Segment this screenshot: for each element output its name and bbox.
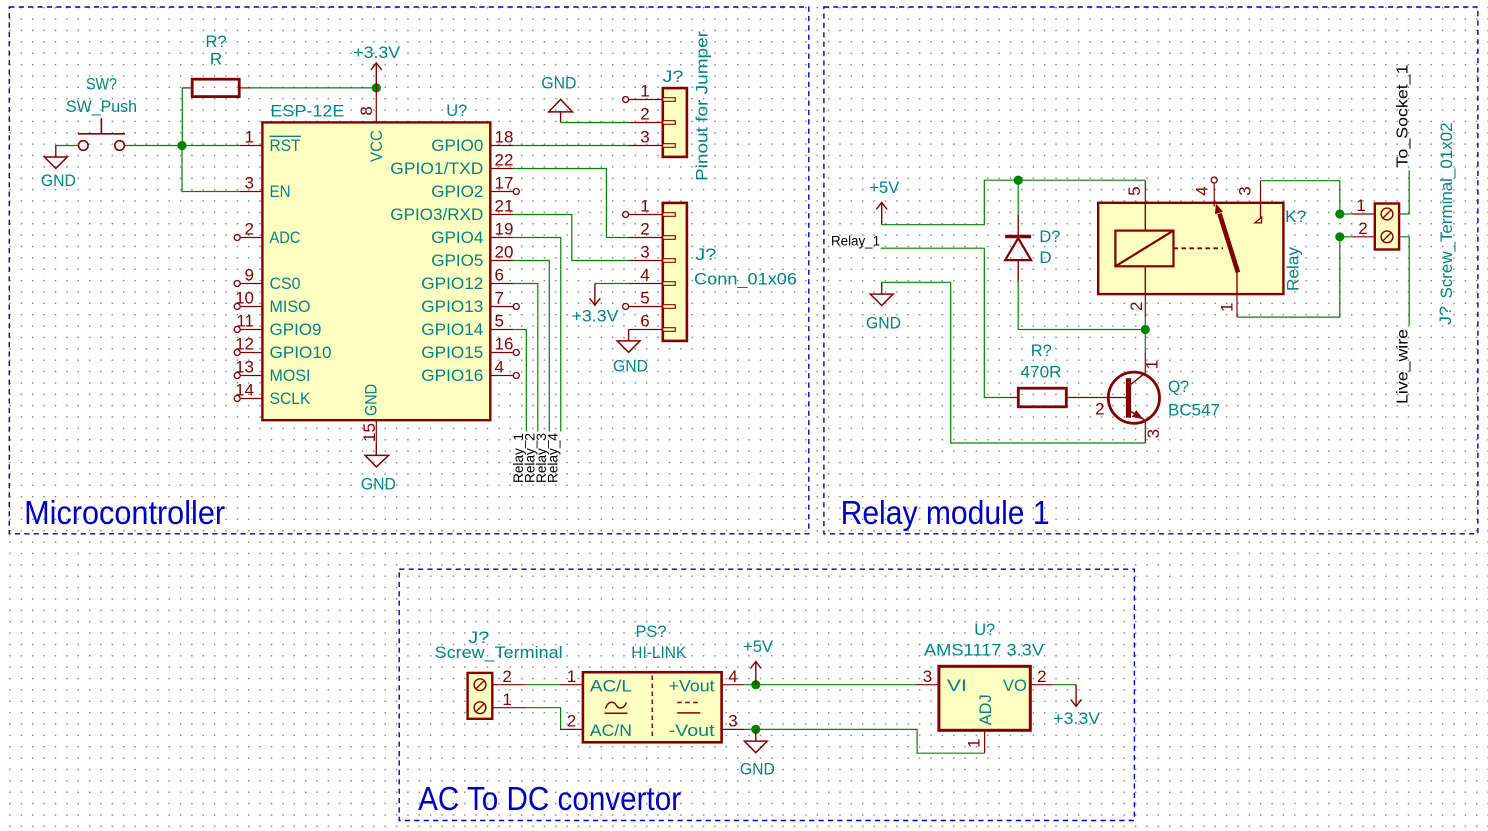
ground symbol GND (U? pin15) [365,444,389,467]
svg-text:1: 1 [567,667,576,686]
pin 5 GPIO14 [421,312,513,339]
pin 6 GPIO12 [421,266,513,293]
svg-text:R?: R? [206,32,227,51]
svg-text:2: 2 [640,220,649,239]
jumper pin 1 [623,82,663,103]
svg-text:GPIO0: GPIO0 [431,136,483,155]
conn pin 1 [623,197,663,218]
svg-text:2: 2 [245,220,254,239]
wire +Vout to AMS VI [744,684,916,686]
ground symbol GND (switch) [44,146,67,169]
pin 13 MOSI [234,358,310,385]
wire +3.3V to conn pin4 [595,283,629,285]
wire GPIO4 to Relay_4 [513,238,561,432]
pin 1 RST [240,128,301,155]
svg-text:3: 3 [640,128,649,147]
wire To_Socket_1 [1399,170,1409,214]
svg-text:J?: J? [695,245,716,264]
pin 10 MISO [234,289,310,316]
svg-text:1: 1 [502,690,511,709]
svg-text:GND: GND [41,171,76,190]
svg-text:6: 6 [640,312,649,331]
wire switch to RST node [124,145,239,147]
ground symbol GND (bottom) [744,729,767,752]
node junction coil/diode/collector [1141,325,1150,334]
relay pin 1 common [1218,273,1238,318]
svg-text:5: 5 [640,289,649,308]
svg-text:VI: VI [947,676,967,695]
ground symbol GND (conn) [617,330,640,353]
wire Live_wire [1399,237,1409,325]
svg-text:EN: EN [270,182,291,201]
pin 3 -Vout [669,712,745,741]
svg-text:VCC: VCC [367,130,386,162]
svg-text:17: 17 [495,174,514,193]
svg-text:13: 13 [235,358,254,377]
wire resistor to +3.3V [250,87,376,89]
wire GPIO14 to Relay_1 [513,330,526,432]
pin 2 ADC [234,220,300,247]
svg-text:3: 3 [728,712,737,731]
terminal pin 2 to AC/L [492,667,560,686]
svg-text:GPIO4: GPIO4 [431,228,483,247]
svg-text:1: 1 [640,82,649,101]
svg-text:D: D [1039,248,1051,267]
terminal pin 1 [1340,196,1375,215]
pin 20 GPIO5 [431,243,513,270]
svg-text:GPIO3/RXD: GPIO3/RXD [390,205,483,224]
pin 22 GPIO1/TXD [390,151,513,178]
svg-text:R?: R? [1031,341,1052,360]
pin 12 GPIO10 [234,335,331,362]
relay pin 2 coil [1127,266,1146,329]
svg-text:10: 10 [235,289,254,308]
relay switch blade [1215,204,1238,273]
svg-text:4: 4 [640,266,649,285]
ground symbol GND (jumper) [549,99,573,122]
section border AC To DC convertor [399,569,1134,820]
svg-text:J?: J? [1436,306,1455,325]
conn pin 3 [629,243,663,262]
svg-text:BC547: BC547 [1168,401,1220,420]
svg-text:GPIO9: GPIO9 [270,320,322,339]
pin 15 GND [360,384,381,444]
svg-text:1: 1 [1356,196,1365,215]
dc icon [677,703,700,713]
svg-text:Conn_01x06: Conn_01x06 [694,270,797,289]
svg-text:Relay module 1: Relay module 1 [841,494,1050,531]
svg-text:MOSI: MOSI [270,366,311,385]
svg-text:+3.3V: +3.3V [572,307,620,326]
svg-text:11: 11 [236,312,254,331]
svg-text:2: 2 [640,105,649,124]
pin 17 GPIO2 [431,174,519,201]
power symbol +3.3V (conn) [590,284,601,306]
svg-text:4: 4 [495,358,504,377]
svg-text:GPIO10: GPIO10 [270,343,332,362]
svg-text:Screw_Terminal: Screw_Terminal [435,643,563,662]
wire GND to emitter [882,282,1146,443]
svg-text:ESP-12E: ESP-12E [270,102,344,121]
connector J? Screw_Terminal body [468,673,493,719]
wire -Vout to ADJ [744,729,984,753]
power symbol +5V (relay) [876,202,887,224]
svg-text:SCLK: SCLK [270,389,312,408]
relay pin 4 [1192,177,1217,207]
node junction GND (bottom) [751,725,760,734]
terminal pin 1 to AC/N [492,690,561,730]
svg-text:PS?: PS? [636,622,667,641]
svg-text:1: 1 [1218,303,1237,312]
conn pin 6 [629,312,663,331]
jumper pin 2 [629,105,663,124]
relay K? body [1098,203,1283,294]
svg-text:2: 2 [567,712,576,731]
svg-text:J?: J? [663,67,684,86]
node junction +5V [751,680,760,689]
svg-text:Relay_1: Relay_1 [831,233,880,249]
svg-text:3: 3 [923,667,932,686]
svg-text:Relay_4: Relay_4 [544,433,560,483]
power module PS? HI-LINK body [583,672,722,742]
svg-text:8: 8 [357,106,376,115]
svg-text:12: 12 [235,335,254,354]
svg-text:GPIO1/TXD: GPIO1/TXD [390,159,483,178]
diode D? D [1005,180,1031,282]
terminal pin 2 [1340,219,1375,238]
svg-text:20: 20 [495,243,514,262]
svg-text:4: 4 [728,667,737,686]
svg-text:3: 3 [1235,186,1254,195]
svg-text:+3.3V: +3.3V [1053,709,1101,728]
svg-text:HI-LINK: HI-LINK [631,643,687,662]
wire +5V rail [882,180,1146,225]
pin 16 GPIO15 [421,335,519,362]
svg-text:15: 15 [360,423,379,442]
pin 18 GPIO0 [431,128,513,155]
svg-text:Relay: Relay [1284,246,1303,291]
svg-text:SW?: SW? [86,75,117,94]
wire switch to GND [56,146,79,148]
svg-text:MISO: MISO [270,297,311,316]
wire junction to EN [182,146,240,192]
pin 2 AC/N [561,712,632,741]
svg-text:+Vout: +Vout [669,676,715,695]
svg-text:+3.3V: +3.3V [353,43,401,62]
power symbol +5V (bottom) [750,662,761,685]
node junction terminal pin2 [1335,232,1344,241]
svg-text:22: 22 [495,151,514,170]
pin 3 VI [916,667,967,695]
wire GPIO0 to jumper pin3 [513,145,628,147]
svg-text:D?: D? [1039,227,1060,246]
svg-text:2: 2 [502,667,511,686]
svg-text:AMS1117 3.3V: AMS1117 3.3V [924,641,1045,660]
svg-text:4: 4 [1192,186,1211,195]
svg-text:1: 1 [964,739,983,748]
relay pin 5 [1125,180,1146,230]
switch SW? SW_Push [78,118,125,150]
wire collector to junction [1144,330,1146,354]
svg-text:AC To DC convertor: AC To DC convertor [418,780,681,817]
svg-text:GPIO2: GPIO2 [431,182,483,201]
node junction +3.3V [372,83,381,92]
svg-text:2: 2 [1358,219,1367,238]
svg-text:CS0: CS0 [270,274,301,293]
svg-text:3: 3 [1144,429,1163,438]
svg-text:Microcontroller: Microcontroller [24,494,225,531]
svg-text:K?: K? [1285,207,1306,226]
resistor R? 470R [1009,388,1126,407]
svg-text:U?: U? [974,620,995,639]
ic U? ESP-12E body [262,122,490,420]
svg-text:5: 5 [1125,186,1144,195]
jumper pin 3 [629,128,663,147]
pin 2 VO [1003,667,1053,695]
svg-text:Pinout for Jumper: Pinout for Jumper [693,31,712,181]
svg-text:1: 1 [1143,360,1162,369]
svg-text:RST: RST [270,136,301,155]
svg-text:2: 2 [1095,400,1104,419]
svg-text:SW_Push: SW_Push [66,97,137,116]
svg-text:19: 19 [495,220,514,239]
svg-text:3: 3 [640,243,649,262]
wire pin1 to terminal pin2 [1237,237,1340,317]
connector J? Conn_01x06 body [663,203,687,341]
pin 11 GPIO9 [234,312,321,339]
wire VO to +3.3V [1053,684,1076,686]
svg-text:-Vout: -Vout [669,721,715,740]
relay coil box [1115,231,1173,267]
svg-text:GPIO5: GPIO5 [431,251,483,270]
svg-text:GPIO12: GPIO12 [421,274,483,293]
svg-text:GPIO14: GPIO14 [421,320,483,339]
connector J? Pinout for Jumper body [663,88,687,157]
wire GPIO1/TXD to conn pin2 [513,169,628,238]
wire pin3 to terminal pin1 [1261,181,1340,214]
svg-text:GPIO13: GPIO13 [421,297,483,316]
svg-text:VO: VO [1003,676,1027,695]
svg-text:Q?: Q? [1168,377,1189,396]
wire GPIO3/RXD to conn pin3 [513,215,628,261]
pin 9 CS0 [234,266,300,293]
svg-text:GND: GND [740,760,775,779]
conn pin 4 [629,266,663,285]
resistor R? R [182,79,250,96]
wire GPIO5 to Relay_3 [513,261,549,432]
wire diode bottom to junction [1018,282,1145,329]
section border Microcontroller [9,7,809,534]
connector J? Screw_Terminal_01x02 body [1375,204,1399,250]
regulator U? AMS1117 body [939,666,1030,730]
svg-text:6: 6 [495,266,504,285]
svg-text:Screw_Terminal_01x02: Screw_Terminal_01x02 [1437,123,1456,299]
transistor Q? BC547 [1095,353,1163,443]
svg-text:Live_wire: Live_wire [1395,329,1412,404]
pin 1 AC/L [560,667,632,695]
pin 21 GPIO3/RXD [390,197,513,224]
svg-text:1: 1 [245,128,254,147]
pin 14 SCLK [234,381,311,408]
relay pin 3 [1235,181,1261,223]
svg-text:AC/N: AC/N [590,721,632,740]
svg-text:AC/L: AC/L [590,676,632,695]
pin 7 GPIO13 [421,289,519,316]
svg-text:2: 2 [1037,667,1046,686]
conn pin 2 [629,220,663,239]
wire GND to jumper pin2 [561,122,629,124]
pin 8 VCC [357,88,386,162]
pin 19 GPIO4 [431,220,513,247]
svg-text:GND: GND [541,74,576,93]
svg-text:5: 5 [495,312,504,331]
svg-text:+5V: +5V [869,178,900,197]
node junction diode top [1014,176,1023,185]
svg-text:U?: U? [446,101,467,120]
svg-text:To_Socket_1: To_Socket_1 [1395,64,1412,167]
svg-text:18: 18 [495,128,514,147]
wire conn pin6 stub [628,330,630,331]
svg-text:16: 16 [495,335,514,354]
svg-text:1: 1 [640,197,649,216]
svg-text:GND: GND [613,357,648,376]
svg-text:7: 7 [495,289,504,308]
svg-text:14: 14 [235,381,254,400]
svg-text:GPIO15: GPIO15 [421,343,483,362]
pin 4 +Vout [669,667,745,695]
pin 1 ADJ [964,694,995,753]
svg-text:+5V: +5V [743,637,774,656]
power symbol +3.3V [371,63,382,88]
svg-text:21: 21 [495,197,514,216]
ground symbol GND (relay) [870,282,893,305]
node junction terminal pin1 [1335,209,1344,218]
ac sine icon [605,702,628,713]
svg-text:GND: GND [362,384,381,416]
svg-text:R: R [210,50,222,69]
pin 3 EN [240,174,291,201]
relay dashed link [1174,247,1224,249]
wire GPIO12 to Relay_2 [513,284,538,432]
svg-text:GND: GND [866,314,901,333]
wire junction up to resistor [181,88,183,146]
svg-text:3: 3 [245,174,254,193]
svg-text:2: 2 [1127,302,1146,311]
svg-text:ADJ: ADJ [976,694,995,725]
power symbol +3.3V (bottom) [1071,685,1082,707]
node junction RST [177,141,186,150]
section border Relay module 1 [824,7,1478,534]
conn pin 5 [623,289,663,310]
pin 4 GPIO16 [421,358,519,385]
svg-text:GPIO16: GPIO16 [421,366,483,385]
svg-text:ADC: ADC [270,228,301,247]
wire Relay_1 to resistor [881,248,1010,397]
svg-text:GND: GND [361,475,396,494]
svg-text:9: 9 [245,266,254,285]
svg-text:470R: 470R [1021,363,1062,382]
